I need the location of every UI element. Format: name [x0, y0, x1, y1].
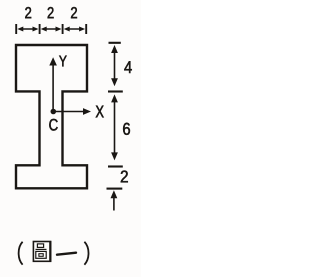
Y axis arrow	[49, 57, 57, 111]
right dim: double arrow for 6	[111, 94, 118, 160]
caption close paren ）	[84, 242, 88, 265]
dimension label 2 (top-right segment)	[71, 7, 77, 18]
right dim: double arrow for 4	[111, 45, 118, 86]
I-beam cross-section outline	[16, 45, 87, 188]
caption character 圖	[33, 241, 50, 262]
double arrow (top-middle 2)	[41, 27, 62, 32]
centroid label C	[49, 119, 57, 131]
extension tick 3 (top dim line)	[62, 24, 64, 34]
centroid dot C	[51, 109, 57, 115]
right dim: middle bar (y=91.5)	[108, 90, 123, 92]
X axis arrow	[53, 108, 91, 115]
dimension label 6	[123, 123, 130, 135]
caption character 一	[57, 253, 76, 255]
right dim: top bar (y=43)	[109, 42, 121, 44]
right dim: bar below 2 (y=188.6)	[107, 188, 123, 190]
double arrow (top-right 2)	[64, 27, 85, 32]
right dim: bar above 2 (y=166.5)	[108, 165, 123, 167]
dimension label 2 (top-middle segment)	[48, 7, 54, 18]
extension tick 2 (top dim line)	[39, 24, 41, 34]
dimension label 2 (top-left segment)	[25, 7, 31, 18]
dimension label 4	[124, 61, 131, 73]
caption open paren （	[19, 242, 23, 265]
dimension label 2 (right)	[121, 171, 128, 183]
right dim: up arrow below bottom bar	[111, 190, 118, 210]
extension tick 4 (top dim line)	[85, 24, 87, 34]
X axis label	[96, 106, 104, 118]
double arrow (top-left 2)	[17, 27, 38, 32]
Y axis label	[59, 56, 66, 67]
extension tick 1 (top dim line)	[15, 24, 17, 34]
